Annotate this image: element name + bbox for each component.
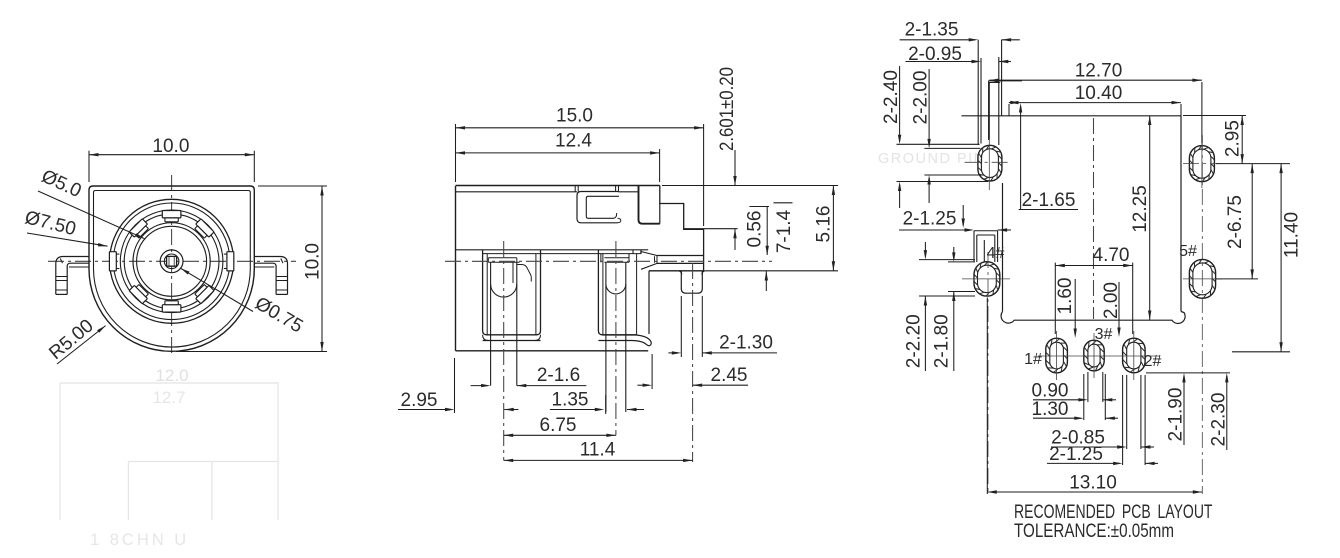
- pad column centerline right: [1201, 135, 1203, 494]
- side view: clip1 hook notch: [517, 265, 532, 282]
- side view: clip1 top fold: [488, 257, 517, 259]
- svg-text:GROUND PIN: GROUND PIN: [878, 151, 986, 167]
- svg-text:10.0: 10.0: [152, 136, 189, 157]
- svg-text:2-1.80: 2-1.80: [932, 314, 953, 368]
- svg-text:10.0: 10.0: [303, 243, 324, 280]
- svg-text:7-1.4: 7-1.4: [774, 209, 795, 253]
- svg-text:4.70: 4.70: [1093, 245, 1130, 266]
- left view: horizontal centerline: [48, 260, 296, 262]
- dimension 15.0: [455, 124, 457, 182]
- svg-text:5.16: 5.16: [814, 206, 835, 243]
- side view: bottom edge of right housing: [649, 270, 704, 272]
- svg-text:2-1.25: 2-1.25: [1049, 444, 1103, 465]
- dimension 2.95 (pcb): [1183, 115, 1246, 117]
- svg-text:15.0: 15.0: [556, 106, 593, 127]
- svg-text:11.4: 11.4: [580, 440, 616, 461]
- pad column centerline left: [987, 252, 989, 494]
- label D7.50 with leader: [27, 233, 108, 246]
- label R5.00 with leader: [57, 326, 106, 364]
- dimension 0.56: [750, 206, 770, 208]
- svg-text:12.0: 12.0: [155, 366, 188, 385]
- dimension 2.95 (side view): [454, 358, 456, 413]
- svg-text:2-1.25: 2-1.25: [903, 209, 957, 230]
- side view: right lower edge: [648, 271, 650, 334]
- svg-text:2-1.30: 2-1.30: [719, 333, 773, 354]
- left view: vertical centerline: [171, 175, 173, 356]
- side view: clip1 inner frame lines: [486, 254, 488, 335]
- svg-text:2.601±0.20: 2.601±0.20: [717, 67, 738, 151]
- pcb outline bottom with corner bumps: [1001, 312, 1185, 324]
- svg-text:5#: 5#: [1179, 243, 1197, 260]
- dimension 10.0 vertical (left view): [258, 185, 327, 187]
- side view: clip2 U-cut / pin edges: [605, 262, 607, 412]
- left view: inner circle pair (D5.0): [133, 223, 210, 300]
- svg-text:12.7: 12.7: [152, 388, 185, 407]
- side view: right step profile: [660, 186, 704, 271]
- svg-text:1 8CHN U: 1 8CHN U: [90, 531, 189, 549]
- svg-text:4#: 4#: [987, 245, 1005, 262]
- side view: clip1 U inner edge: [512, 262, 514, 283]
- svg-text:2-1.6: 2-1.6: [537, 365, 580, 386]
- svg-text:11.40: 11.40: [1282, 212, 1303, 258]
- dimension 2-1.6: [471, 385, 488, 387]
- side view: latch top ticks: [574, 186, 576, 192]
- svg-text:3#: 3#: [1095, 326, 1113, 343]
- side view: pin taper: [641, 252, 657, 256]
- left view: outer circle pair (D7.50): [110, 199, 234, 323]
- pcb center axis: [1093, 118, 1095, 319]
- dimension 4.70: [1054, 263, 1056, 334]
- svg-text:6.75: 6.75: [540, 415, 577, 436]
- svg-text:13.10: 13.10: [1069, 473, 1117, 494]
- top-left leg slot: [977, 40, 979, 145]
- dimension 12.4: [659, 149, 661, 182]
- dimension 2.45: [651, 354, 653, 389]
- side view: latch inner: [586, 196, 619, 218]
- dimension 0.90: [1087, 372, 1089, 402]
- svg-text:2#: 2#: [1144, 353, 1162, 370]
- side view: latch outer: [577, 192, 619, 223]
- svg-text:1.35: 1.35: [552, 390, 589, 411]
- left view: ring tab at 225 deg: [129, 283, 150, 304]
- side view: clip2 centerline: [615, 241, 617, 435]
- dimension 7-1.4: [774, 202, 793, 204]
- dimension 2-6.75: [1216, 278, 1258, 280]
- side view: clip2 inner frame lines: [602, 254, 604, 335]
- dimension 2-1.65 second arrow: [962, 205, 964, 225]
- extension line top edge right: [662, 185, 838, 187]
- svg-text:2-2.00: 2-2.00: [911, 71, 932, 125]
- dimension 2-1.30: [680, 296, 682, 357]
- left view: body outline inner: [94, 191, 251, 348]
- dimension 2-0.85: [1126, 375, 1128, 449]
- side view: horizontal centerline: [445, 260, 772, 262]
- bottom pads centerline: [1038, 355, 1160, 357]
- svg-text:2-2.20: 2-2.20: [904, 314, 925, 368]
- side view: top inner line: [456, 191, 578, 193]
- mid-left leg slot: [973, 231, 975, 262]
- side view: window left edge: [639, 186, 660, 224]
- left view: ring tab at 90 deg: [162, 211, 181, 222]
- left view: toothed ring circles: [120, 210, 223, 313]
- dimension 11.4: [504, 459, 693, 461]
- pad 2#: [1123, 338, 1146, 373]
- dimension 2-1.25 (bottom): [1122, 375, 1124, 465]
- pad 1#: [1046, 338, 1068, 373]
- side view: body left edge: [455, 186, 457, 351]
- dimension 11.40: [1232, 351, 1290, 353]
- dimension 2-1.65 leader: [989, 80, 1022, 82]
- svg-text:0.56: 0.56: [745, 211, 766, 248]
- pad 3#: [1084, 340, 1104, 371]
- pcb outline: [1002, 183, 1004, 312]
- extension line bottom right housing: [705, 270, 838, 272]
- svg-text:1.30: 1.30: [1032, 399, 1069, 420]
- svg-text:1.60: 1.60: [1055, 278, 1076, 315]
- side view: center pin: [657, 255, 704, 257]
- left view: outer lug at 0 deg: [224, 252, 234, 271]
- svg-text:12.4: 12.4: [555, 131, 592, 152]
- side view: clip2 bottom band and foot: [598, 335, 651, 346]
- svg-text:2-1.90: 2-1.90: [1166, 388, 1187, 442]
- svg-text:12.25: 12.25: [1130, 185, 1151, 233]
- dimension 10.0 horizontal (left view): [88, 151, 90, 182]
- dimension 13.10: [986, 298, 988, 495]
- left view: left mounting leg: [56, 257, 89, 295]
- left view: ring tab at 270 deg: [162, 301, 181, 312]
- left view: ring tab at 135 deg: [129, 219, 150, 240]
- svg-text:2.45: 2.45: [711, 365, 748, 386]
- pad 4#: [974, 262, 1000, 296]
- left view: right mounting leg: [254, 257, 287, 295]
- pad top-right: [1189, 146, 1214, 182]
- label D0.75 with leader: [181, 268, 254, 311]
- dimension 10.40: [1008, 104, 1010, 116]
- pad top-left: [978, 145, 1002, 181]
- svg-text:10.40: 10.40: [1075, 83, 1123, 104]
- label D5.0 with leader: [38, 191, 145, 239]
- side view: clip1 U-cut / pin edges: [490, 262, 492, 385]
- svg-text:2-6.75: 2-6.75: [1225, 195, 1246, 249]
- side view: body bottom edge: [456, 350, 649, 352]
- side view: shield seam lines: [456, 249, 649, 251]
- side view: latch right curl: [614, 213, 621, 223]
- dimension 6.75: [504, 434, 616, 436]
- svg-text:2.95: 2.95: [401, 390, 438, 411]
- dimension 1.35: [504, 409, 518, 411]
- side view: clip pin 1 outer frame: [483, 254, 541, 335]
- side view: bottom tab 2-1.30: [681, 271, 702, 293]
- side view: tab centerline: [692, 263, 694, 462]
- left view: center pin circles: [160, 250, 183, 273]
- dimension 5.16: [832, 186, 834, 271]
- left view: body outline outer: [89, 186, 254, 351]
- dimension 12.25: [1149, 116, 1151, 321]
- left view: ring tab at 45 deg: [193, 219, 214, 240]
- dimension 2.601+-0.20: [734, 150, 736, 186]
- dimension 12.70: [988, 82, 990, 139]
- svg-text:2.95: 2.95: [1223, 120, 1244, 157]
- svg-text:TOLERANCE:±0.05mm: TOLERANCE:±0.05mm: [1014, 520, 1174, 542]
- dimension 1.30: [1083, 374, 1085, 420]
- left view: faint ghost rectangle: [60, 383, 278, 520]
- side view: body top edge: [456, 185, 660, 187]
- pad 5#: [1189, 259, 1215, 298]
- svg-text:2-2.40: 2-2.40: [881, 70, 902, 124]
- svg-text:2-1.65: 2-1.65: [1022, 190, 1076, 211]
- side view: clip1 centerline: [503, 241, 505, 460]
- svg-text:12.70: 12.70: [1075, 61, 1123, 82]
- side view: clip2 top fold ticks: [600, 254, 602, 263]
- side view: clip pin 2 outer frame: [598, 254, 636, 335]
- left view: ring tab at 315 deg: [193, 283, 214, 304]
- svg-text:2-1.35: 2-1.35: [905, 20, 959, 41]
- left view: outer lug at 180 deg: [109, 252, 119, 271]
- left view: center square pin: [167, 256, 177, 266]
- svg-text:1#: 1#: [1024, 351, 1042, 368]
